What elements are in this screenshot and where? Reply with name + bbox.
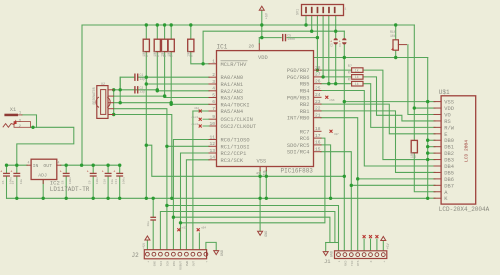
junction bbox=[343, 175, 346, 178]
svg-text:1k: 1k bbox=[355, 82, 359, 86]
capacitor C8 bbox=[105, 172, 111, 174]
svg-text:C7: C7 bbox=[12, 180, 15, 184]
svg-text:+5V: +5V bbox=[143, 242, 147, 249]
capacitor C4 input 100u bbox=[4, 172, 10, 174]
svg-text:+: + bbox=[60, 170, 62, 174]
capacitor C7 bbox=[90, 172, 96, 174]
resistor R1 (RA0 pullup) bbox=[143, 39, 149, 51]
svg-text:1: 1 bbox=[345, 8, 347, 11]
svg-text:DB7: DB7 bbox=[444, 183, 454, 189]
svg-text:SCK: SCK bbox=[166, 261, 169, 267]
junction bbox=[163, 94, 166, 97]
wire: IC pin17 row down to J2/J1 cross row bbox=[181, 138, 325, 223]
svg-text:+: + bbox=[0, 170, 2, 174]
svg-text:16: 16 bbox=[315, 140, 321, 146]
X-mark pin 10 stub bbox=[203, 125, 209, 127]
wire: resonator pin3 row to ground row bbox=[114, 115, 172, 199]
svg-text:DB6: DB6 bbox=[444, 177, 454, 183]
svg-text:LCD-20X4_2004A: LCD-20X4_2004A bbox=[439, 206, 490, 213]
junction bbox=[165, 204, 168, 207]
wire: J2 pin1 +5V column bbox=[146, 240, 148, 250]
svg-text:SDI: SDI bbox=[160, 261, 163, 267]
svg-text:C9: C9 bbox=[89, 180, 92, 184]
wire: IC pin11 RC0 row to J2 pin5 column bbox=[173, 140, 209, 250]
connector SV1 (ICSP) bbox=[302, 5, 344, 16]
junction bbox=[265, 197, 268, 200]
svg-text:20: 20 bbox=[248, 44, 254, 50]
svg-text:RA1/AN1: RA1/AN1 bbox=[221, 82, 244, 88]
junction bbox=[304, 23, 307, 26]
wire: J2 pin3 column cross row to J1 area bbox=[160, 212, 335, 250]
junction bbox=[145, 23, 148, 26]
junction bbox=[119, 101, 122, 104]
svg-text:+: + bbox=[87, 170, 89, 174]
svg-text:OSC1/CLKIN: OSC1/CLKIN bbox=[221, 117, 253, 123]
wire: cap C5 column bbox=[16, 165, 18, 173]
wire: IC pin27 row through R7 to RS path bbox=[321, 77, 435, 121]
svg-text:100u: 100u bbox=[123, 177, 126, 184]
junction bbox=[260, 23, 263, 26]
junction bbox=[170, 103, 173, 106]
wire: IC pin4 RA2 row bbox=[157, 90, 209, 92]
+5V symbol top bbox=[259, 6, 264, 10]
svg-text:27: 27 bbox=[315, 72, 321, 78]
capacitor C5 (polarized) bbox=[342, 38, 346, 40]
svg-text:J1: J1 bbox=[324, 259, 330, 265]
svg-text:10u: 10u bbox=[20, 179, 23, 185]
svg-text:R?: R? bbox=[348, 65, 352, 69]
junction bbox=[343, 100, 346, 103]
wire: ICSP pin4 column to RB6 bbox=[322, 16, 324, 77]
wire: J1 pin6 stub bbox=[370, 239, 372, 251]
svg-text:SDO/RC5: SDO/RC5 bbox=[287, 143, 310, 149]
wire: ground row to LCD K pin bbox=[428, 197, 435, 199]
svg-text:RC0/T1OSO: RC0/T1OSO bbox=[221, 138, 250, 144]
ground symbol near J2 bbox=[214, 251, 219, 255]
junction bbox=[5, 164, 8, 167]
wire: ICSP pin1 column bbox=[305, 16, 307, 26]
junction bbox=[321, 75, 324, 78]
wire: VDD pin20 riser bbox=[258, 38, 260, 44]
X-mark J1 pin5 bbox=[363, 235, 366, 238]
svg-text:5: 5 bbox=[212, 92, 215, 98]
junction bbox=[170, 23, 173, 26]
wire: IC pin5 RA3 row bbox=[165, 97, 209, 99]
svg-text:1k: 1k bbox=[355, 68, 359, 72]
wire: LCD DB2 tie bbox=[428, 152, 435, 154]
svg-text:DB5: DB5 bbox=[444, 170, 454, 176]
svg-text:+: + bbox=[330, 40, 332, 44]
wire: backlight resistor column to LCD A bbox=[414, 108, 435, 192]
svg-text:RESONATOR: RESONATOR bbox=[92, 87, 96, 104]
svg-text:6: 6 bbox=[212, 99, 215, 105]
svg-text:23: 23 bbox=[315, 99, 321, 105]
wire: regulator output row bbox=[61, 164, 120, 166]
svg-text:GND: GND bbox=[265, 231, 269, 237]
wire: GND drop to ground symbol below IC bbox=[259, 198, 261, 231]
resistor R5 (MCLR pullup) bbox=[188, 39, 194, 51]
X-mark J2 pin6 column bbox=[177, 228, 180, 231]
junction bbox=[426, 158, 429, 161]
junction bbox=[163, 23, 166, 26]
svg-text:PGM/RB3: PGM/RB3 bbox=[287, 95, 310, 101]
svg-text:+: + bbox=[113, 170, 115, 174]
wire: J2 pin5 cross row to gnd link bbox=[173, 217, 330, 242]
svg-text:24: 24 bbox=[315, 92, 321, 98]
junction bbox=[258, 197, 261, 200]
svg-text:1k: 1k bbox=[355, 75, 359, 79]
svg-text:VDD: VDD bbox=[258, 55, 268, 61]
svg-text:10k: 10k bbox=[187, 51, 192, 57]
wire: IC pin1 MCLR row bbox=[203, 63, 209, 65]
svg-text:DB3: DB3 bbox=[444, 158, 454, 164]
svg-text:9: 9 bbox=[212, 114, 215, 120]
junction bbox=[316, 36, 319, 39]
svg-text:R?: R? bbox=[348, 79, 352, 83]
wire: GND top distribution y=57.5 bbox=[307, 57, 428, 59]
wire: gnd drop to symbol left of J1 bbox=[325, 243, 327, 252]
svg-text:RA3/AN3: RA3/AN3 bbox=[221, 96, 244, 102]
wire: ICSP pin3 column to RB7 bbox=[316, 16, 318, 71]
svg-text:osc2: osc2 bbox=[192, 123, 199, 126]
svg-text:RA4/T0CKI: RA4/T0CKI bbox=[221, 102, 250, 108]
wire: IC pin14 RC3 row to J2 pin7 column bbox=[186, 160, 209, 250]
svg-text:14: 14 bbox=[209, 155, 215, 161]
wire: J2 pin2 column with cap C10 bbox=[152, 198, 154, 217]
svg-text:7: 7 bbox=[212, 106, 215, 112]
svg-text:RA5/AN4: RA5/AN4 bbox=[221, 109, 244, 115]
svg-text:TXD: TXD bbox=[351, 260, 354, 266]
junction bbox=[92, 164, 95, 167]
wire: +5V rail left drop to regulator output bbox=[81, 25, 83, 165]
svg-text:RB1: RB1 bbox=[300, 109, 310, 115]
junction bbox=[80, 164, 83, 167]
junction bbox=[106, 164, 109, 167]
svg-text:SV1: SV1 bbox=[297, 9, 301, 15]
resistor R4 (RA3 pullup) bbox=[168, 39, 174, 51]
svg-text:12: 12 bbox=[209, 141, 215, 147]
svg-text:4: 4 bbox=[58, 161, 60, 165]
junction bbox=[426, 139, 429, 142]
X-mark pin 7 net bbox=[199, 110, 202, 113]
wire: RA3 pullup column R4 bbox=[170, 25, 172, 104]
ground symbol below IC1 bbox=[258, 231, 263, 235]
junction bbox=[170, 101, 173, 104]
svg-text:RA2/AN2: RA2/AN2 bbox=[221, 89, 244, 95]
svg-text:n$3: n$3 bbox=[182, 226, 187, 230]
wire: +5V rail right drop to LCD VDD bbox=[413, 25, 415, 108]
wire: trimmer wiper to LCD VO bbox=[408, 45, 435, 115]
X-mark unused pin 18 bbox=[330, 130, 333, 133]
wire: cap C9 column bbox=[119, 165, 121, 173]
svg-text:n$2: n$2 bbox=[194, 106, 199, 110]
svg-text:RC3/SCK: RC3/SCK bbox=[221, 158, 244, 164]
wire: IC pin6 RA4 row bbox=[171, 103, 209, 105]
svg-text:ROBUT: ROBUT bbox=[179, 261, 182, 270]
svg-text:100n: 100n bbox=[287, 37, 295, 41]
svg-text:+: + bbox=[205, 261, 208, 263]
svg-text:R/W: R/W bbox=[444, 125, 454, 131]
wire: RA0 pullup column R1 bbox=[145, 25, 147, 198]
svg-text:RA0/AN0: RA0/AN0 bbox=[221, 75, 244, 81]
junction bbox=[92, 197, 95, 200]
svg-text:4: 4 bbox=[28, 161, 30, 165]
wire: resonator pin2 row bbox=[114, 102, 172, 104]
svg-text:n$7: n$7 bbox=[334, 132, 339, 136]
junction bbox=[356, 177, 359, 180]
svg-text:GND: GND bbox=[221, 250, 225, 256]
capacitor C6 output bbox=[63, 172, 69, 174]
svg-text:10u: 10u bbox=[147, 221, 150, 227]
junction bbox=[145, 197, 148, 200]
wire: ICSP pin6 / cap C2 column to RB5 row bbox=[335, 16, 337, 39]
svg-text:10k: 10k bbox=[167, 51, 172, 57]
junction bbox=[118, 197, 121, 200]
wire: RA1 pullup column R2 to resonator row bbox=[156, 25, 158, 91]
svg-text:LD117ADT-TR: LD117ADT-TR bbox=[50, 186, 90, 193]
svg-text:100n: 100n bbox=[96, 177, 99, 184]
wire: J2 pin10 to ground symbol bbox=[206, 242, 216, 250]
wire: oscillator cap drop column bbox=[119, 77, 121, 103]
svg-text:MCLR/THV: MCLR/THV bbox=[221, 62, 248, 68]
junction bbox=[112, 113, 115, 116]
svg-text:C8: C8 bbox=[62, 180, 65, 184]
IC1 VSS pin stubs bbox=[259, 167, 261, 171]
junction bbox=[394, 23, 397, 26]
junction bbox=[327, 82, 330, 85]
junction bbox=[334, 82, 337, 85]
wire: IC pin12 RC1 row joins J2 pin4 column bbox=[167, 145, 209, 147]
wire: RA2 pullup column R3 bbox=[164, 25, 166, 98]
junction bbox=[426, 145, 429, 148]
junction bbox=[170, 197, 173, 200]
svg-text:ADJ: ADJ bbox=[38, 172, 47, 178]
X-mark unused pin 24 bbox=[325, 96, 328, 99]
svg-text:DB2: DB2 bbox=[444, 151, 454, 157]
junction bbox=[394, 56, 397, 59]
wire: 100n cap row (VDD decoupling) bbox=[259, 37, 281, 39]
wire: MCLR pullup column R5 bbox=[191, 25, 203, 64]
junction bbox=[152, 197, 155, 200]
svg-text:RXD: RXD bbox=[344, 260, 347, 266]
resistor R8 bbox=[352, 81, 363, 86]
wire: IC pin22 row to LCD DB5 bbox=[321, 111, 435, 173]
svg-text:21: 21 bbox=[315, 113, 321, 119]
svg-text:10k: 10k bbox=[160, 51, 165, 57]
+5V symbol J1 pin8 bbox=[381, 237, 386, 241]
svg-text:PGD/RB7: PGD/RB7 bbox=[287, 68, 310, 74]
junction bbox=[15, 197, 18, 200]
svg-text:C11: C11 bbox=[115, 179, 118, 185]
junction bbox=[112, 88, 115, 91]
svg-text:R?: R? bbox=[348, 72, 352, 76]
wire: cap C7 column bbox=[92, 165, 94, 173]
svg-text:U$1: U$1 bbox=[439, 89, 450, 96]
svg-text:+: + bbox=[383, 260, 386, 262]
junction bbox=[31, 126, 34, 129]
svg-text:C4: C4 bbox=[339, 43, 342, 47]
svg-text:VSS: VSS bbox=[257, 158, 267, 164]
ground symbol near J1 bbox=[323, 252, 328, 256]
junction bbox=[42, 197, 45, 200]
wire: IC pin2 RA0 row with cap C1 bbox=[138, 76, 209, 78]
svg-text:10k: 10k bbox=[410, 152, 415, 158]
svg-text:RB5: RB5 bbox=[300, 82, 310, 88]
wire: cap C3 column down to J1 pin2 bbox=[343, 45, 345, 251]
IC1 VDD pin stub bbox=[258, 44, 260, 51]
wire: MCLR net (pin1 to ICSP) bbox=[203, 31, 344, 64]
capacitor C2 (osc) bbox=[134, 87, 136, 93]
junction bbox=[106, 197, 109, 200]
wire: resonator internal row 4 to J2 pin4 column bbox=[114, 109, 167, 250]
junction bbox=[163, 94, 166, 97]
svg-text:2: 2 bbox=[212, 72, 215, 78]
svg-text:C6: C6 bbox=[2, 180, 5, 184]
wire: X1 pin1 to junction bbox=[22, 115, 37, 127]
wire: MCLR wire to cap C3 column bbox=[343, 31, 345, 38]
svg-text:10u: 10u bbox=[111, 179, 114, 185]
svg-text:E: E bbox=[444, 132, 447, 138]
svg-text:25: 25 bbox=[315, 85, 321, 91]
wire: +5V top rail bbox=[82, 24, 414, 26]
wire: IC pin21 row tee DB6 then J1 pin4 column bbox=[321, 118, 358, 251]
resistor R2 (RA1 pullup) bbox=[154, 39, 160, 51]
svg-text:IN: IN bbox=[33, 163, 39, 169]
connector J2 bbox=[144, 250, 206, 259]
svg-text:RB2: RB2 bbox=[300, 102, 310, 108]
X-mark J2 pin9 column bbox=[197, 228, 200, 231]
connector J1 bbox=[335, 251, 387, 259]
svg-text:C3: C3 bbox=[331, 43, 334, 47]
svg-text:+: + bbox=[147, 261, 150, 263]
wire: X1 feed to regulator input bbox=[17, 127, 74, 165]
svg-text:DB0: DB0 bbox=[444, 138, 454, 144]
svg-text:C10: C10 bbox=[104, 179, 107, 185]
wire: IC pin7 RA5 row to J2 pin8 column bbox=[193, 110, 209, 112]
wire: IC pin16 row to LCD DB6 bbox=[321, 145, 331, 198]
svg-text:10k: 10k bbox=[153, 51, 158, 57]
svg-text:RSV: RSV bbox=[173, 261, 176, 267]
junction bbox=[65, 197, 68, 200]
wire: IC pin25 row to LCD DB4 bbox=[321, 91, 435, 167]
svg-text:3: 3 bbox=[212, 79, 215, 85]
capacitor C3 (100n VDD) bbox=[282, 35, 284, 41]
wire: ICSP pin5 column to RB5 bbox=[328, 16, 330, 84]
junction bbox=[343, 56, 346, 59]
svg-text:+: + bbox=[10, 170, 12, 174]
capacitor C9 bbox=[117, 172, 123, 174]
junction bbox=[413, 106, 416, 109]
svg-text:IC1: IC1 bbox=[217, 44, 228, 51]
LCD U$1 box bbox=[441, 96, 476, 204]
svg-text:DB1: DB1 bbox=[444, 145, 454, 151]
svg-text:22: 22 bbox=[315, 106, 321, 112]
svg-text:osc1: osc1 bbox=[192, 116, 199, 119]
svg-text:+5V: +5V bbox=[266, 12, 270, 19]
svg-text:SDI/RC4: SDI/RC4 bbox=[287, 150, 310, 156]
wire: J1 pin8 +5V column bbox=[382, 241, 384, 251]
svg-text:19: 19 bbox=[264, 170, 268, 176]
resistor R3 (RA2 pullup) bbox=[162, 39, 168, 51]
junction bbox=[426, 100, 429, 103]
svg-text:X: X bbox=[370, 260, 373, 262]
svg-text:+: + bbox=[102, 170, 104, 174]
capacitor C4 (polarized) bbox=[334, 38, 338, 40]
junction bbox=[172, 216, 175, 219]
junction bbox=[258, 175, 261, 178]
junction bbox=[201, 62, 204, 65]
wire: X1 pin2 to junction bbox=[31, 126, 37, 128]
svg-text:13: 13 bbox=[209, 148, 215, 154]
wire: long bottom ground row bbox=[7, 58, 428, 199]
wire: IC pin26 row through R8 to R/W path bbox=[321, 84, 435, 128]
junction bbox=[350, 184, 353, 187]
svg-text:10k: 10k bbox=[390, 34, 396, 38]
svg-text:26: 26 bbox=[315, 79, 321, 85]
svg-text:DB4: DB4 bbox=[444, 164, 454, 170]
svg-text:18: 18 bbox=[315, 126, 321, 132]
svg-text:U2: U2 bbox=[101, 83, 105, 87]
wire: IC VSS pin19 column bbox=[265, 171, 267, 199]
svg-text:VSS: VSS bbox=[444, 100, 454, 106]
wire: trimmer column bbox=[395, 25, 397, 58]
junction bbox=[260, 36, 263, 39]
svg-text:L: L bbox=[338, 260, 341, 262]
svg-text:J2: J2 bbox=[132, 252, 140, 259]
svg-text:22p: 22p bbox=[140, 89, 146, 93]
svg-text:RS: RS bbox=[444, 119, 450, 125]
junction bbox=[310, 30, 313, 33]
capacitor C1 (osc) bbox=[134, 74, 136, 80]
resistor R6 bbox=[352, 68, 363, 73]
svg-text:28: 28 bbox=[315, 65, 321, 71]
wire: ground branch from caps to VSS rail bbox=[146, 145, 344, 176]
svg-text:22p: 22p bbox=[140, 77, 146, 81]
svg-text:RC7: RC7 bbox=[300, 129, 310, 135]
svg-text:PGC/RB6: PGC/RB6 bbox=[287, 75, 310, 81]
svg-text:RC1/T1OSI: RC1/T1OSI bbox=[221, 144, 250, 150]
junction bbox=[65, 164, 68, 167]
wire: J2 pin4 cross row to J1 pin1 bbox=[167, 206, 339, 251]
svg-text:10k: 10k bbox=[142, 51, 147, 57]
junction bbox=[156, 23, 159, 26]
svg-text:10: 10 bbox=[209, 121, 215, 127]
junction bbox=[426, 197, 429, 200]
wire: IC pin23 row to LCD E bbox=[321, 104, 435, 134]
wire: J1 gnd link row bbox=[326, 242, 339, 244]
svg-text:RB4: RB4 bbox=[300, 89, 310, 95]
wire: J2 pin9 stub bbox=[198, 233, 200, 250]
wire: cap C8 column bbox=[107, 165, 109, 173]
wire: IC VSS pin8 column bbox=[259, 171, 261, 199]
svg-text:X1: X1 bbox=[10, 107, 16, 113]
capacitor C10 at J2 pin2 bbox=[151, 216, 155, 218]
wire: resonator pin1 row bbox=[114, 89, 158, 91]
junction bbox=[334, 30, 337, 33]
junction bbox=[329, 197, 332, 200]
junction bbox=[156, 89, 159, 92]
svg-text:OSC2/CLKOUT: OSC2/CLKOUT bbox=[221, 124, 257, 130]
IC1 right pin stubs bbox=[314, 69, 322, 71]
resonator Q1 bbox=[97, 86, 108, 119]
wire: +5V drop to cap row bbox=[261, 10, 263, 37]
junction bbox=[15, 164, 18, 167]
junction bbox=[156, 88, 159, 91]
X-mark J1 pin6 bbox=[369, 235, 372, 238]
svg-text:+5V: +5V bbox=[387, 242, 391, 249]
svg-text:n$4: n$4 bbox=[201, 226, 206, 230]
junction bbox=[316, 68, 319, 71]
